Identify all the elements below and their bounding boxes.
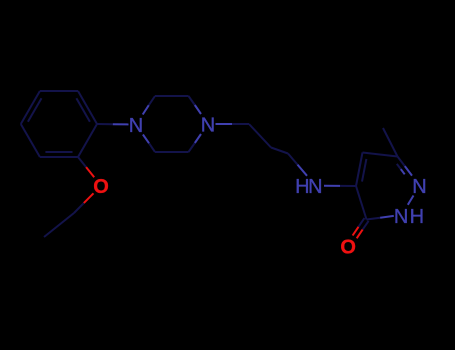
carbonyl C3=O line 2 — [363, 221, 369, 230]
pyridazinone edge N1-N2 — [408, 196, 414, 205]
benzene double bond 2-3 inner — [45, 151, 72, 153]
bond O-CH2 ethyl — [84, 193, 94, 203]
svg-text:O: O — [340, 237, 356, 259]
bond C2-O ether — [78, 157, 86, 167]
piperazine edge N4-C(bottom-right) — [195, 134, 201, 143]
bond C6-CH3 methyl — [383, 128, 398, 157]
bond propyl b-c — [271, 148, 288, 154]
piperazine edge N1-C(top-left) — [143, 105, 149, 114]
pyridazinone edge C6=N1 — [398, 157, 405, 167]
benzene edge C4-C5 — [21, 91, 40, 124]
bond N4-CH2 propyl a — [216, 123, 233, 125]
carbonyl C3=O line 1 — [359, 218, 365, 227]
svg-text:H: H — [410, 206, 424, 228]
piperazine edge C(top-right)-N4 — [189, 96, 195, 105]
double bond C6=N1 inner — [397, 164, 401, 169]
piperazine edge bottom — [155, 151, 189, 153]
bond propyl a-b — [249, 124, 271, 148]
benzene edge C5-C6 — [40, 90, 78, 92]
piperazine edge top — [155, 95, 189, 97]
pyridazinone edge C5-C6 — [363, 153, 398, 157]
double bond C4=C5 inner — [362, 159, 366, 182]
svg-text:N: N — [201, 114, 215, 136]
svg-text:N: N — [308, 176, 322, 198]
benzene edge C6-C1 — [78, 91, 97, 124]
bond propyl c - NH amine — [288, 154, 298, 165]
bond phenyl-N piperazine — [97, 123, 113, 125]
pyridazinone edge N2-C3 — [380, 216, 394, 218]
bond amine NH - C4 pyridazinone — [324, 185, 340, 187]
svg-text:N: N — [129, 115, 143, 137]
pyridazinone edge C3-C4 — [356, 186, 367, 220]
benzene double bond 4-5 inner — [28, 98, 42, 121]
svg-text:N: N — [412, 176, 426, 198]
benzene edge C1-C2 — [78, 124, 97, 157]
svg-text:O: O — [93, 176, 109, 198]
benzene double bond 1-6 inner — [76, 98, 90, 121]
pyridazinone edge C4-C5 — [356, 153, 363, 187]
benzene edge C2-C3 — [40, 156, 78, 158]
benzene edge C3-C4 — [21, 124, 40, 157]
bond CH2-CH3 ethyl — [44, 213, 74, 237]
piperazine edge C(bottom-left)-N1 — [149, 143, 155, 152]
svg-text:N: N — [394, 206, 408, 228]
